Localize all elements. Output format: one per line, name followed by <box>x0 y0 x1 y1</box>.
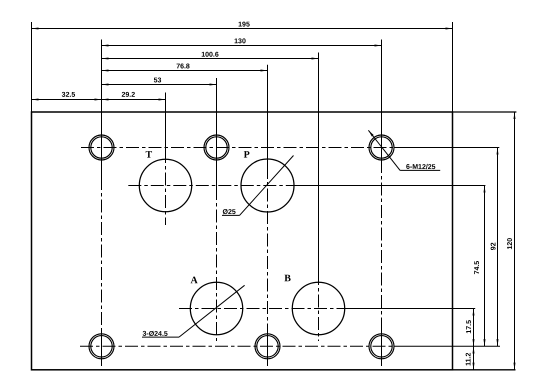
centerline column R dash-dot <box>381 160 383 330</box>
centerline bottom hole row dash-dot <box>80 345 394 347</box>
svg-text:Ø25: Ø25 <box>222 208 235 216</box>
centerline column B dash-dot <box>318 272 320 341</box>
svg-text:120: 120 <box>507 238 514 250</box>
bolt hole TM inner <box>206 137 227 158</box>
centerline top hole row dash-dot <box>81 147 394 149</box>
svg-text:17.5: 17.5 <box>466 320 473 334</box>
dimension line 32.5 <box>32 99 102 101</box>
centerline column R x=381.6 solid extension <box>381 40 383 161</box>
svg-text:74.5: 74.5 <box>474 261 481 275</box>
bolt hole BL outer <box>89 334 114 359</box>
svg-text:B: B <box>284 273 291 284</box>
extension line right edge up <box>452 22 454 112</box>
dimension line 29.2 <box>102 99 166 101</box>
svg-text:3-Ø24.5: 3-Ø24.5 <box>142 330 167 338</box>
centerline column x=102.2 bottom solid <box>101 330 103 366</box>
dimension line 130 <box>102 45 382 47</box>
leader 6-M12 arrowhead <box>368 130 373 136</box>
svg-text:P: P <box>244 150 250 161</box>
bolt hole TR inner <box>371 137 392 158</box>
extension line left edge up <box>31 22 33 112</box>
centerline column B x=318.8 solid extension <box>318 53 320 273</box>
centerline AB row dash-dot <box>179 308 346 310</box>
leader 3xdiameter 24.5 underline <box>142 336 179 338</box>
extension AB row right <box>346 308 475 310</box>
dimension line 76.8 <box>102 70 268 72</box>
svg-text:195: 195 <box>238 21 250 28</box>
dimension line 100.6 <box>102 58 319 60</box>
bolt hole TL outer <box>89 135 114 160</box>
extension top hole row right <box>394 147 499 149</box>
leader diameter 25 diagonal <box>240 156 294 216</box>
svg-text:A: A <box>190 275 198 286</box>
extension bottom hole row right <box>394 345 500 347</box>
bolt hole BL inner <box>91 336 112 357</box>
dimension line 17.5 <box>473 309 475 347</box>
svg-text:92: 92 <box>491 242 498 250</box>
dimension line 11.2 <box>473 346 475 370</box>
bolt hole TM outer <box>204 135 229 160</box>
extension port row right <box>296 185 485 187</box>
centerline column x=102.2 solid extension <box>101 40 103 178</box>
centerline column R bottom solid <box>381 330 383 366</box>
port P circle <box>241 159 294 212</box>
bolt hole TL inner <box>91 137 112 158</box>
svg-text:130: 130 <box>234 38 246 45</box>
centerline column x=102.2 dash-dot <box>101 177 103 330</box>
centerline column P bottom solid <box>267 330 269 366</box>
svg-text:29.2: 29.2 <box>121 92 135 99</box>
centerline column T dash-dot <box>165 150 167 225</box>
centerline column P dash-dot <box>267 166 269 330</box>
centerline column T x=165.3 solid extension <box>165 93 167 151</box>
dimension line 74.5 <box>484 186 486 347</box>
centerline port row dash-dot <box>128 185 296 187</box>
leader diameter 25 underline <box>222 214 240 216</box>
bolt hole TR outer <box>369 135 394 160</box>
plate outline <box>32 112 453 370</box>
svg-text:T: T <box>145 150 152 161</box>
leader 3xdiameter 24.5 diagonal <box>179 285 245 337</box>
svg-text:53: 53 <box>154 77 162 84</box>
extension line bottom edge right <box>453 369 516 371</box>
port B circle <box>292 282 344 334</box>
svg-text:6-M12/25: 6-M12/25 <box>406 163 436 171</box>
dimension line 92 <box>497 148 499 347</box>
centerline column A dash-dot <box>216 187 218 341</box>
bolt hole BM outer <box>255 334 280 359</box>
dimension line 120 <box>514 112 516 370</box>
port T circle <box>139 159 191 211</box>
extension line top edge right <box>453 111 517 113</box>
centerline column P x=267.7 solid extension <box>267 65 269 166</box>
dimension line 195 <box>32 28 453 30</box>
svg-text:32.5: 32.5 <box>62 92 76 99</box>
port A circle <box>190 282 242 334</box>
dimension line 53 <box>102 84 217 86</box>
svg-text:76.8: 76.8 <box>176 63 190 70</box>
bolt hole BR outer <box>369 334 394 359</box>
bolt hole BR inner <box>371 336 392 357</box>
svg-text:100.6: 100.6 <box>201 52 219 59</box>
svg-text:11.2: 11.2 <box>466 352 473 365</box>
leader 6-M12 diagonal <box>368 130 400 170</box>
bolt hole BM inner <box>257 336 278 357</box>
leader 6-M12 underline <box>400 169 440 171</box>
centerline column A x=216.2 solid extension <box>216 78 218 187</box>
